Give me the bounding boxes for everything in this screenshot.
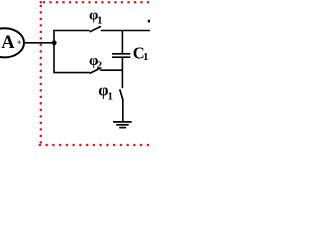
svg-text:1: 1: [97, 14, 103, 26]
svg-text:2: 2: [97, 59, 103, 71]
svg-text:A: A: [1, 33, 15, 53]
svg-text:1: 1: [143, 51, 149, 63]
svg-text:1: 1: [108, 90, 114, 102]
